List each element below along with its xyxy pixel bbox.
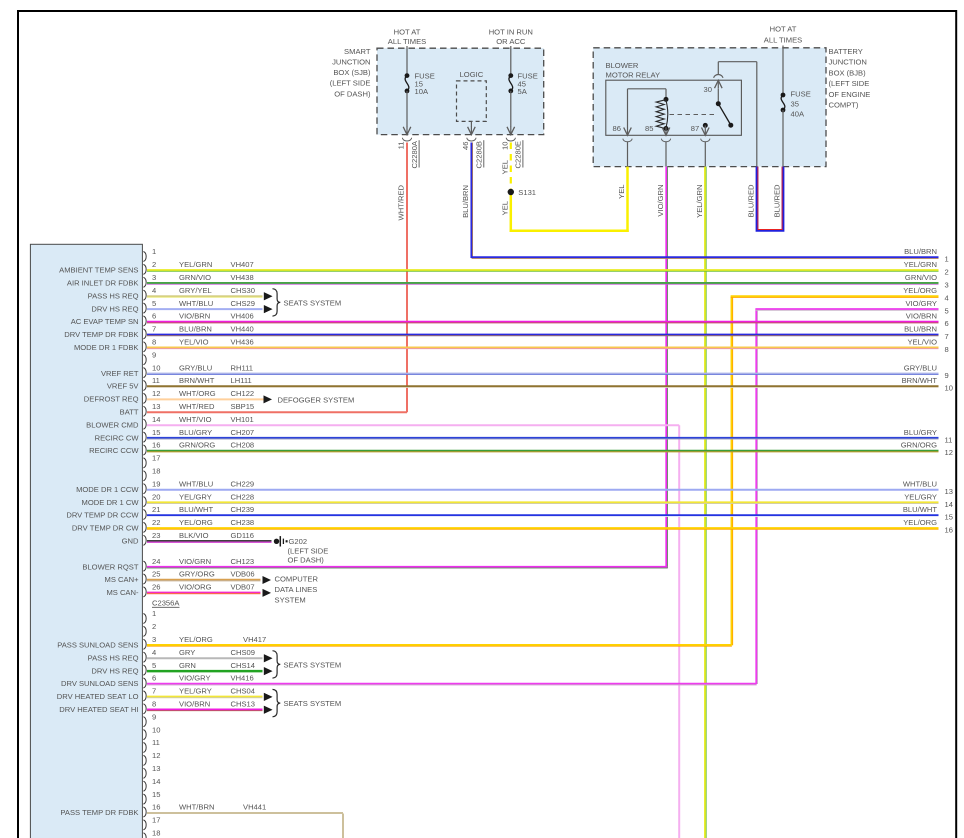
svg-text:DEFOGGER SYSTEM: DEFOGGER SYSTEM bbox=[278, 395, 355, 404]
svg-text:16: 16 bbox=[152, 441, 160, 450]
svg-text:OF DASH): OF DASH) bbox=[288, 556, 325, 565]
svg-text:BLU/BRN: BLU/BRN bbox=[461, 185, 470, 218]
svg-text:CHS04: CHS04 bbox=[231, 687, 255, 696]
svg-text:7: 7 bbox=[945, 332, 949, 341]
svg-text:10: 10 bbox=[152, 725, 160, 734]
svg-text:RH111: RH111 bbox=[231, 363, 254, 372]
svg-text:GRY/YEL: GRY/YEL bbox=[179, 286, 212, 295]
svg-text:12: 12 bbox=[152, 389, 160, 398]
svg-text:(LEFT SIDE: (LEFT SIDE bbox=[288, 546, 329, 555]
svg-text:BLK/VIO: BLK/VIO bbox=[179, 531, 209, 540]
svg-text:GRN/VIO: GRN/VIO bbox=[905, 273, 937, 282]
svg-text:46: 46 bbox=[461, 142, 470, 150]
svg-text:SYSTEM: SYSTEM bbox=[275, 595, 306, 604]
svg-text:12: 12 bbox=[152, 751, 160, 760]
svg-text:GRY/BLU: GRY/BLU bbox=[179, 363, 212, 372]
svg-text:VH406: VH406 bbox=[231, 312, 254, 321]
svg-text:86: 86 bbox=[613, 124, 621, 133]
svg-text:FUSE: FUSE bbox=[791, 90, 811, 99]
svg-text:CHS14: CHS14 bbox=[231, 661, 255, 670]
svg-text:MS CAN+: MS CAN+ bbox=[105, 575, 140, 584]
svg-text:WHT/RED: WHT/RED bbox=[179, 402, 215, 411]
svg-text:DRV SUNLOAD SENS: DRV SUNLOAD SENS bbox=[61, 679, 139, 688]
svg-text:BOX (BJB): BOX (BJB) bbox=[829, 68, 867, 77]
svg-text:YEL/GRY: YEL/GRY bbox=[179, 492, 212, 501]
svg-text:C2280A: C2280A bbox=[410, 140, 419, 168]
svg-text:BOX (SJB): BOX (SJB) bbox=[333, 68, 371, 77]
svg-text:12: 12 bbox=[945, 448, 953, 457]
svg-text:9: 9 bbox=[152, 712, 156, 721]
svg-text:BLU/WHT: BLU/WHT bbox=[903, 505, 938, 514]
svg-text:LH111: LH111 bbox=[231, 376, 252, 385]
svg-text:BLU/RED: BLU/RED bbox=[747, 184, 756, 217]
svg-text:HOT AT: HOT AT bbox=[770, 25, 797, 34]
svg-text:C2356A: C2356A bbox=[152, 598, 180, 607]
svg-text:OF DASH): OF DASH) bbox=[334, 89, 371, 98]
svg-text:YEL: YEL bbox=[500, 160, 509, 174]
svg-text:DRV TEMP DR FDBK: DRV TEMP DR FDBK bbox=[64, 330, 138, 339]
svg-text:BLOWER CMD: BLOWER CMD bbox=[86, 420, 139, 429]
svg-text:3: 3 bbox=[152, 273, 156, 282]
svg-text:22: 22 bbox=[152, 518, 160, 527]
svg-text:2: 2 bbox=[152, 260, 156, 269]
svg-text:GD116: GD116 bbox=[231, 531, 255, 540]
svg-text:VIO/GRN: VIO/GRN bbox=[179, 557, 211, 566]
svg-text:BATT: BATT bbox=[120, 408, 139, 417]
svg-text:VH101: VH101 bbox=[231, 415, 254, 424]
svg-text:4: 4 bbox=[152, 648, 156, 657]
svg-text:14: 14 bbox=[152, 415, 160, 424]
svg-text:GND: GND bbox=[122, 537, 139, 546]
svg-text:BLU/GRY: BLU/GRY bbox=[904, 428, 937, 437]
svg-text:25: 25 bbox=[152, 570, 160, 579]
svg-text:WHT/RED: WHT/RED bbox=[397, 184, 406, 220]
svg-text:PASS HS REQ: PASS HS REQ bbox=[88, 653, 139, 662]
svg-text:MODE DR 1 FDBK: MODE DR 1 FDBK bbox=[74, 343, 139, 352]
svg-text:26: 26 bbox=[152, 583, 160, 592]
svg-text:87: 87 bbox=[691, 124, 699, 133]
svg-text:40A: 40A bbox=[791, 110, 805, 119]
svg-text:DATA LINES: DATA LINES bbox=[275, 585, 318, 594]
svg-text:1: 1 bbox=[152, 609, 156, 618]
svg-text:CH229: CH229 bbox=[231, 479, 255, 488]
svg-text:VIO/GRY: VIO/GRY bbox=[179, 674, 211, 683]
svg-text:RECIRC CCW: RECIRC CCW bbox=[89, 446, 139, 455]
svg-text:C2280E: C2280E bbox=[514, 141, 523, 168]
svg-text:BLU/BRN: BLU/BRN bbox=[904, 325, 937, 334]
svg-text:CH239: CH239 bbox=[231, 505, 255, 514]
svg-text:DRV HEATED SEAT HI: DRV HEATED SEAT HI bbox=[59, 705, 138, 714]
svg-text:VH416: VH416 bbox=[231, 674, 254, 683]
svg-text:YEL/VIO: YEL/VIO bbox=[179, 338, 209, 347]
svg-text:9: 9 bbox=[945, 371, 949, 380]
svg-text:6: 6 bbox=[945, 319, 949, 328]
svg-text:13: 13 bbox=[152, 402, 160, 411]
svg-text:14: 14 bbox=[152, 777, 160, 786]
svg-text:11: 11 bbox=[152, 376, 160, 385]
svg-text:4: 4 bbox=[945, 294, 949, 303]
svg-text:2: 2 bbox=[945, 268, 949, 277]
svg-text:24: 24 bbox=[152, 557, 160, 566]
svg-text:VIO/GRY: VIO/GRY bbox=[905, 299, 937, 308]
svg-text:GRN/VIO: GRN/VIO bbox=[179, 273, 211, 282]
svg-text:13: 13 bbox=[152, 764, 160, 773]
svg-text:8: 8 bbox=[152, 700, 156, 709]
svg-text:MOTOR RELAY: MOTOR RELAY bbox=[606, 71, 661, 80]
svg-text:MODE DR 1 CCW: MODE DR 1 CCW bbox=[76, 485, 139, 494]
svg-text:10: 10 bbox=[500, 142, 509, 150]
svg-text:GRN/ORG: GRN/ORG bbox=[179, 441, 215, 450]
svg-text:WHT/BLU: WHT/BLU bbox=[903, 479, 937, 488]
svg-text:13: 13 bbox=[945, 487, 953, 496]
svg-text:(LEFT SIDE: (LEFT SIDE bbox=[829, 79, 870, 88]
svg-text:18: 18 bbox=[152, 829, 160, 838]
svg-text:DRV HEATED SEAT LO: DRV HEATED SEAT LO bbox=[57, 692, 139, 701]
svg-text:ALL TIMES: ALL TIMES bbox=[388, 37, 426, 46]
svg-text:85: 85 bbox=[645, 124, 653, 133]
svg-text:YEL: YEL bbox=[500, 201, 509, 215]
svg-text:CH228: CH228 bbox=[231, 492, 255, 501]
svg-text:BLU/RED: BLU/RED bbox=[773, 184, 782, 217]
svg-text:GRY/ORG: GRY/ORG bbox=[179, 570, 215, 579]
svg-text:BLU/WHT: BLU/WHT bbox=[179, 505, 214, 514]
svg-text:GRY/BLU: GRY/BLU bbox=[904, 363, 937, 372]
svg-text:VIO/BRN: VIO/BRN bbox=[179, 312, 210, 321]
svg-text:VH407: VH407 bbox=[231, 260, 254, 269]
svg-text:DEFROST REQ: DEFROST REQ bbox=[84, 395, 139, 404]
svg-text:17: 17 bbox=[152, 816, 160, 825]
svg-text:VREF 5V: VREF 5V bbox=[107, 382, 140, 391]
svg-text:DRV TEMP DR CCW: DRV TEMP DR CCW bbox=[66, 511, 139, 520]
svg-text:10: 10 bbox=[945, 384, 953, 393]
svg-text:1: 1 bbox=[152, 247, 156, 256]
svg-text:8: 8 bbox=[945, 345, 949, 354]
svg-text:CHS29: CHS29 bbox=[231, 299, 255, 308]
svg-text:WHT/VIO: WHT/VIO bbox=[179, 415, 212, 424]
svg-text:YEL: YEL bbox=[617, 185, 626, 199]
svg-text:COMPUTER: COMPUTER bbox=[275, 574, 319, 583]
svg-text:17: 17 bbox=[152, 454, 160, 463]
svg-text:PASS HS REQ: PASS HS REQ bbox=[88, 291, 139, 300]
svg-text:4: 4 bbox=[152, 286, 156, 295]
svg-text:7: 7 bbox=[152, 687, 156, 696]
svg-text:CH207: CH207 bbox=[231, 428, 255, 437]
svg-text:YEL/ORG: YEL/ORG bbox=[903, 518, 937, 527]
svg-text:21: 21 bbox=[152, 505, 160, 514]
svg-text:WHT/BRN: WHT/BRN bbox=[179, 803, 214, 812]
svg-text:BRN/WHT: BRN/WHT bbox=[902, 376, 938, 385]
svg-text:10A: 10A bbox=[415, 87, 429, 96]
svg-text:CH123: CH123 bbox=[231, 557, 255, 566]
svg-text:WHT/BLU: WHT/BLU bbox=[179, 479, 213, 488]
svg-text:15: 15 bbox=[152, 790, 160, 799]
svg-text:11: 11 bbox=[945, 435, 953, 444]
svg-text:20: 20 bbox=[152, 492, 160, 501]
svg-text:BLOWER: BLOWER bbox=[606, 61, 639, 70]
svg-text:OR ACC: OR ACC bbox=[496, 37, 526, 46]
svg-text:SEATS SYSTEM: SEATS SYSTEM bbox=[284, 661, 342, 670]
svg-text:15: 15 bbox=[152, 428, 160, 437]
svg-text:VDB06: VDB06 bbox=[231, 570, 255, 579]
svg-text:COMPT): COMPT) bbox=[829, 101, 859, 110]
svg-text:SEATS SYSTEM: SEATS SYSTEM bbox=[284, 699, 342, 708]
svg-text:AC EVAP TEMP SN: AC EVAP TEMP SN bbox=[71, 317, 139, 326]
svg-text:HOT IN RUN: HOT IN RUN bbox=[489, 27, 533, 36]
svg-text:5: 5 bbox=[152, 299, 156, 308]
svg-text:VH417: VH417 bbox=[243, 635, 266, 644]
svg-text:WHT/BLU: WHT/BLU bbox=[179, 299, 213, 308]
svg-text:VH438: VH438 bbox=[231, 273, 254, 282]
svg-text:10: 10 bbox=[152, 363, 160, 372]
svg-text:DRV HS REQ: DRV HS REQ bbox=[91, 304, 138, 313]
svg-text:18: 18 bbox=[152, 467, 160, 476]
svg-text:LOGIC: LOGIC bbox=[460, 70, 484, 79]
svg-text:GRN: GRN bbox=[179, 661, 196, 670]
svg-text:DRV HS REQ: DRV HS REQ bbox=[91, 666, 138, 675]
svg-text:YEL/GRN: YEL/GRN bbox=[904, 260, 937, 269]
svg-text:CHS30: CHS30 bbox=[231, 286, 255, 295]
svg-text:BLU/BRN: BLU/BRN bbox=[179, 325, 212, 334]
svg-text:BLOWER RQST: BLOWER RQST bbox=[82, 562, 138, 571]
svg-text:PASS TEMP DR FDBK: PASS TEMP DR FDBK bbox=[60, 808, 138, 817]
svg-text:16: 16 bbox=[945, 526, 953, 535]
svg-text:VREF RET: VREF RET bbox=[101, 369, 139, 378]
svg-text:CHS13: CHS13 bbox=[231, 700, 255, 709]
svg-text:11: 11 bbox=[152, 738, 160, 747]
svg-text:PASS SUNLOAD SENS: PASS SUNLOAD SENS bbox=[57, 641, 138, 650]
svg-text:YEL/ORG: YEL/ORG bbox=[179, 518, 213, 527]
svg-text:(LEFT SIDE: (LEFT SIDE bbox=[330, 79, 371, 88]
svg-text:23: 23 bbox=[152, 531, 160, 540]
svg-text:VH440: VH440 bbox=[231, 325, 254, 334]
svg-text:YEL/GRN: YEL/GRN bbox=[695, 185, 704, 218]
svg-text:YEL/GRN: YEL/GRN bbox=[179, 260, 212, 269]
svg-text:AMBIENT TEMP SENS: AMBIENT TEMP SENS bbox=[59, 266, 138, 275]
svg-text:MS CAN-: MS CAN- bbox=[106, 588, 139, 597]
svg-text:6: 6 bbox=[152, 312, 156, 321]
svg-text:C2280B: C2280B bbox=[475, 141, 484, 168]
svg-text:CHS09: CHS09 bbox=[231, 648, 255, 657]
svg-text:YEL/ORG: YEL/ORG bbox=[179, 635, 213, 644]
svg-text:JUNCTION: JUNCTION bbox=[829, 58, 867, 67]
svg-text:WHT/ORG: WHT/ORG bbox=[179, 389, 216, 398]
svg-text:VDB07: VDB07 bbox=[231, 583, 255, 592]
svg-text:11: 11 bbox=[397, 142, 406, 150]
svg-text:CH122: CH122 bbox=[231, 389, 255, 398]
svg-text:SBP15: SBP15 bbox=[231, 402, 255, 411]
svg-text:CH238: CH238 bbox=[231, 518, 255, 527]
svg-text:VIO/GRN: VIO/GRN bbox=[656, 185, 665, 217]
svg-text:YEL/ORG: YEL/ORG bbox=[903, 286, 937, 295]
svg-text:19: 19 bbox=[152, 479, 160, 488]
svg-text:BLU/BRN: BLU/BRN bbox=[904, 247, 937, 256]
svg-text:3: 3 bbox=[945, 281, 949, 290]
svg-text:YEL/GRY: YEL/GRY bbox=[904, 492, 937, 501]
svg-text:5A: 5A bbox=[518, 87, 528, 96]
svg-text:SMART: SMART bbox=[344, 47, 371, 56]
svg-text:15: 15 bbox=[945, 513, 953, 522]
svg-text:HOT AT: HOT AT bbox=[394, 27, 421, 36]
svg-text:9: 9 bbox=[152, 350, 156, 359]
svg-text:S131: S131 bbox=[518, 188, 536, 197]
svg-text:5: 5 bbox=[152, 661, 156, 670]
svg-text:OF ENGINE: OF ENGINE bbox=[829, 90, 871, 99]
svg-text:GRY: GRY bbox=[179, 648, 195, 657]
svg-text:SEATS SYSTEM: SEATS SYSTEM bbox=[284, 299, 342, 308]
svg-text:RECIRC CW: RECIRC CW bbox=[95, 433, 140, 442]
svg-text:6: 6 bbox=[152, 674, 156, 683]
svg-text:BLU/GRY: BLU/GRY bbox=[179, 428, 212, 437]
svg-text:YEL/GRY: YEL/GRY bbox=[179, 687, 212, 696]
svg-text:30: 30 bbox=[704, 85, 712, 94]
svg-text:7: 7 bbox=[152, 325, 156, 334]
svg-text:AIR INLET DR FDBK: AIR INLET DR FDBK bbox=[67, 279, 139, 288]
svg-text:GRN/ORG: GRN/ORG bbox=[901, 441, 937, 450]
svg-text:35: 35 bbox=[791, 100, 799, 109]
svg-text:ALL TIMES: ALL TIMES bbox=[764, 35, 802, 44]
svg-text:G202: G202 bbox=[289, 537, 308, 546]
svg-text:5: 5 bbox=[945, 307, 949, 316]
svg-text:8: 8 bbox=[152, 338, 156, 347]
svg-text:BRN/WHT: BRN/WHT bbox=[179, 376, 215, 385]
svg-text:CH208: CH208 bbox=[231, 441, 255, 450]
svg-text:JUNCTION: JUNCTION bbox=[332, 58, 370, 67]
svg-text:VIO/ORG: VIO/ORG bbox=[179, 583, 212, 592]
svg-text:2: 2 bbox=[152, 622, 156, 631]
svg-text:1: 1 bbox=[945, 255, 949, 264]
svg-text:BATTERY: BATTERY bbox=[829, 47, 863, 56]
svg-text:MODE DR 1 CW: MODE DR 1 CW bbox=[82, 498, 140, 507]
svg-text:VH441: VH441 bbox=[243, 803, 266, 812]
svg-text:VIO/BRN: VIO/BRN bbox=[179, 700, 210, 709]
svg-text:16: 16 bbox=[152, 803, 160, 812]
svg-text:14: 14 bbox=[945, 500, 953, 509]
svg-text:DRV TEMP DR CW: DRV TEMP DR CW bbox=[72, 524, 139, 533]
svg-text:VH436: VH436 bbox=[231, 338, 254, 347]
svg-text:YEL/VIO: YEL/VIO bbox=[907, 338, 937, 347]
svg-text:VIO/BRN: VIO/BRN bbox=[906, 312, 937, 321]
svg-text:3: 3 bbox=[152, 635, 156, 644]
